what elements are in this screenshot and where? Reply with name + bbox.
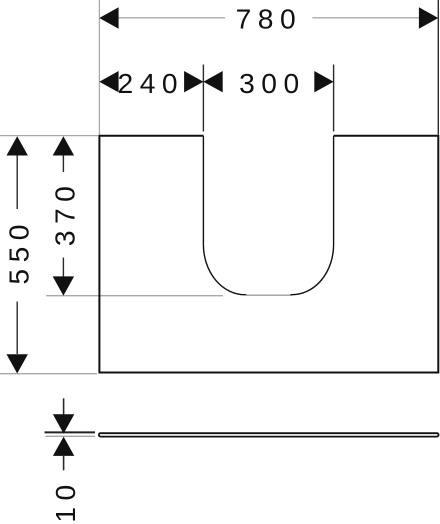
svg-text:780: 780 [236, 3, 303, 35]
extension line sliver-top horizontal [45, 431, 96, 433]
arrow 300 right [314, 71, 333, 92]
arrow 780 left [99, 7, 118, 29]
arrow 10 up [53, 437, 74, 456]
arrow 240 left [99, 71, 118, 92]
basin cutout right side [291, 136, 334, 295]
basin cutout U-shape [203, 136, 246, 295]
svg-text:240: 240 [118, 67, 185, 99]
countertop side profile [99, 433, 439, 436]
svg-text:550: 550 [3, 218, 35, 285]
countertop outline top view [99, 136, 438, 373]
extension line right vertical [437, 0, 439, 135]
arrow 370 up [53, 136, 74, 155]
extension line cutout-bottom horizontal [46, 295, 223, 297]
extension line bottom-left horizontal [0, 373, 97, 375]
arrow 780 right [419, 7, 438, 29]
dimension line 550 [16, 154, 18, 209]
arrow 370 down [53, 276, 74, 295]
extension line cutout-left vertical [202, 65, 204, 132]
extension line sliver-bottom horizontal [46, 435, 96, 437]
arrow 300 left [203, 71, 222, 92]
svg-text:10: 10 [49, 478, 81, 522]
dimension line 10 lower [63, 456, 65, 470]
dimension line 370 [62, 154, 64, 172]
arrow 240 right [184, 71, 203, 92]
svg-text:300: 300 [239, 67, 306, 99]
arrow 550 up [7, 136, 28, 155]
dimension line 780 [119, 17, 226, 19]
arrow 550 down [7, 354, 28, 373]
extension line cutout-right vertical [333, 65, 335, 132]
svg-text:370: 370 [48, 180, 80, 247]
extension line left vertical [98, 0, 100, 135]
arrow 10 down [53, 414, 74, 433]
extension line top-left horizontal [0, 135, 98, 137]
basin cutout bottom flat (renders light) [246, 294, 292, 296]
dimension line 10 upper [63, 398, 65, 414]
